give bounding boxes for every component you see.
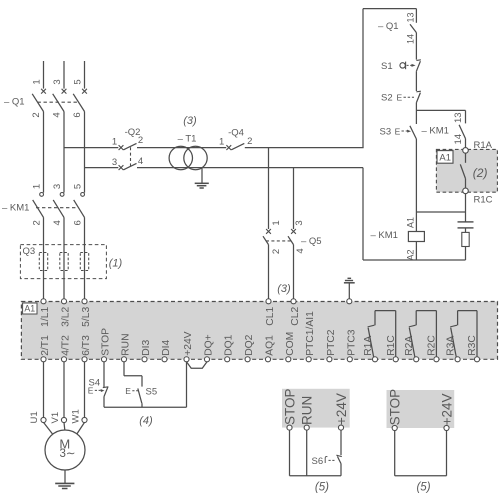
wire RUN down — [306, 430, 308, 476]
svg-text:– Q1: – Q1 — [378, 21, 399, 32]
svg-text:1: 1 — [271, 220, 282, 225]
svg-text:3∼: 3∼ — [59, 448, 75, 460]
snubber resistor — [462, 232, 469, 260]
wire Q4 to control rail corner — [245, 147, 364, 149]
svg-text:S5: S5 — [146, 387, 158, 398]
wire +24V down to S6 — [340, 430, 342, 455]
svg-text:– Q5: – Q5 — [301, 236, 322, 247]
relay contact R2 inside starter — [409, 311, 437, 358]
relay contact R1 inside starter — [368, 311, 396, 358]
control option box (5) with S6 — [282, 389, 350, 428]
wire S4 to bottom wire — [103, 397, 105, 408]
wire RUN jog right — [124, 375, 142, 377]
svg-text:1: 1 — [219, 137, 224, 148]
svg-text:2: 2 — [31, 112, 42, 117]
svg-text:DI3: DI3 — [141, 340, 152, 356]
svg-text:3: 3 — [52, 184, 63, 189]
svg-text:S6: S6 — [312, 456, 324, 467]
svg-text:2: 2 — [247, 136, 252, 147]
relay contact R1A-R1C inside box (2) — [460, 140, 492, 205]
svg-text:+24V: +24V — [183, 331, 194, 355]
wire incoming line L3 — [84, 61, 86, 89]
wire STOP down — [289, 430, 291, 476]
svg-text:+24V: +24V — [439, 393, 454, 425]
wire tap L2 to Q2 pole1 — [64, 147, 118, 149]
wire T1 output to motor terminal U1 — [43, 362, 45, 418]
transformer T1 — [169, 134, 207, 170]
svg-text:1: 1 — [31, 184, 42, 189]
svg-text:3: 3 — [112, 157, 117, 168]
wire incoming line L1 — [43, 61, 45, 89]
motor M 3-phase — [45, 430, 85, 470]
label box A1 — [23, 303, 37, 314]
svg-text:2/T1: 2/T1 — [40, 335, 51, 356]
wire option box bottom rail — [290, 475, 342, 477]
svg-text:3: 3 — [52, 79, 63, 84]
wire U1 to motor — [44, 422, 53, 434]
wire control bottom rail — [363, 259, 466, 261]
svg-text:-Q4: -Q4 — [228, 128, 244, 139]
svg-text:DI4: DI4 — [161, 340, 172, 356]
svg-text:STOP: STOP — [388, 389, 403, 426]
starter bottom terminals — [40, 311, 480, 362]
snubber capacitor — [458, 212, 474, 232]
wire control rail down to coil return — [362, 168, 364, 260]
svg-text:(2): (2) — [473, 166, 488, 180]
starter top terminals — [40, 299, 301, 327]
soft starter relay box (2) — [436, 149, 497, 192]
svg-text:PTC1/AI1: PTC1/AI1 — [305, 311, 316, 356]
svg-text:13: 13 — [453, 112, 464, 123]
fuses Q3 — [39, 253, 88, 271]
svg-text:4: 4 — [52, 220, 63, 225]
svg-text:14: 14 — [406, 34, 416, 44]
earth terminal on starter — [344, 278, 355, 304]
relay contact R3 inside starter — [450, 311, 477, 358]
wire tap L3 to Q2 pole2 — [85, 167, 119, 169]
run switch S6 — [312, 455, 342, 467]
wire down to S5 — [141, 376, 143, 387]
svg-text:S3: S3 — [380, 127, 392, 138]
wire S3 to coil KM1 — [415, 139, 417, 232]
terminals STOP RUN +24V of option box — [282, 388, 349, 430]
svg-text:R1C: R1C — [474, 195, 493, 206]
svg-text:(1): (1) — [109, 258, 123, 270]
svg-text:A1: A1 — [439, 153, 451, 164]
emergency stop S1 — [381, 60, 421, 91]
wire incoming line L2 — [63, 61, 65, 89]
svg-text:PTC2: PTC2 — [326, 329, 337, 356]
contactor KM1 power poles — [2, 184, 85, 226]
wire S5 to bottom wire — [141, 403, 143, 407]
motor terminals U1 V1 W1 — [29, 409, 87, 423]
start button S3 — [380, 126, 417, 139]
svg-text:STOP: STOP — [282, 388, 297, 425]
wire W1 to motor — [77, 422, 85, 434]
svg-text:CL1: CL1 — [265, 307, 276, 326]
wire two wire box bottom rail — [395, 475, 447, 477]
contactor coil KM1 — [371, 217, 425, 261]
svg-text:V1: V1 — [50, 412, 61, 424]
svg-text:PTC3: PTC3 — [346, 329, 357, 356]
circuit breaker Q5 — [263, 220, 322, 254]
wire KM1 poles through fuses to starter — [43, 217, 45, 299]
svg-text:5/L3: 5/L3 — [81, 307, 92, 327]
svg-text:E: E — [88, 386, 94, 396]
svg-text:2: 2 — [138, 135, 143, 146]
wire L1 Q1 to KM1 — [43, 112, 45, 193]
svg-text:– KM1: – KM1 — [422, 126, 449, 137]
svg-text:W1: W1 — [70, 409, 81, 423]
fuse block Q3 dashed box — [20, 245, 106, 279]
svg-text:4: 4 — [52, 112, 63, 117]
svg-text:DQ+: DQ+ — [204, 334, 215, 355]
wire L2 Q1 to KM1 — [63, 112, 65, 193]
circuit breaker Q1 — [4, 79, 85, 117]
svg-text:13: 13 — [405, 12, 415, 22]
wire junction coil branch — [416, 211, 465, 213]
svg-text:+24V: +24V — [334, 393, 349, 425]
svg-text:– Q1: – Q1 — [4, 97, 25, 108]
svg-text:RUN: RUN — [121, 333, 132, 355]
ground at T1 — [195, 168, 209, 188]
wire control rail up — [362, 9, 364, 148]
svg-text:– T1: – T1 — [178, 134, 197, 145]
soft starter block A1 — [21, 302, 497, 360]
svg-text:E: E — [125, 386, 131, 396]
svg-text:4/T2: 4/T2 — [61, 335, 72, 356]
svg-text:S1: S1 — [381, 61, 393, 72]
disconnect switch Q4 — [219, 128, 252, 151]
svg-text:(5): (5) — [315, 482, 329, 494]
svg-text:4: 4 — [295, 248, 306, 253]
wire STOP terminal down — [103, 362, 105, 387]
svg-text:1/L1: 1/L1 — [40, 307, 51, 327]
wire T2 output to motor terminal V1 — [63, 362, 65, 418]
svg-text:AQ1: AQ1 — [265, 335, 276, 356]
disconnect switch Q2 — [112, 127, 143, 170]
svg-text:(3): (3) — [277, 283, 291, 295]
svg-text:(3): (3) — [183, 115, 197, 127]
wire V1 to motor — [63, 422, 66, 430]
run button S5 — [125, 386, 157, 403]
svg-text:A1: A1 — [406, 217, 416, 228]
svg-text:– KM1: – KM1 — [2, 203, 29, 214]
svg-text:2: 2 — [31, 220, 42, 225]
svg-text:STOP: STOP — [101, 328, 112, 356]
wire Q2 under T1 to control rail — [137, 167, 363, 169]
svg-text:– KM1: – KM1 — [371, 230, 398, 241]
svg-text:U1: U1 — [29, 411, 40, 423]
stop button S2 — [381, 91, 421, 124]
svg-text:RUN: RUN — [300, 396, 315, 425]
ground at motor — [55, 470, 74, 489]
svg-text:(4): (4) — [139, 415, 153, 427]
wire +24V down right box — [446, 430, 448, 475]
wire T3 output to motor terminal W1 — [84, 362, 86, 418]
svg-text:(5): (5) — [416, 482, 430, 494]
svg-text:CL2: CL2 — [290, 307, 301, 326]
svg-text:A1: A1 — [24, 304, 35, 314]
wire L3 Q1 to KM1 — [84, 112, 86, 193]
stop button S4 — [88, 378, 109, 397]
svg-text:5: 5 — [73, 79, 84, 84]
wire RUN terminal down — [123, 362, 125, 376]
svg-text:3: 3 — [294, 220, 305, 225]
wire control loop bottom — [104, 406, 187, 408]
svg-text:4: 4 — [138, 156, 143, 167]
wire STOP down right box — [394, 430, 396, 475]
control option box (5) two wire — [387, 390, 455, 428]
svg-text:R1A: R1A — [474, 140, 493, 151]
svg-text:COM: COM — [285, 332, 296, 356]
wire junction to KM1 aux branch — [416, 109, 465, 111]
wire Q2 to T1 top — [137, 147, 226, 149]
svg-text:Q3: Q3 — [23, 246, 36, 257]
jumper +24V to DQ+ — [187, 362, 208, 368]
svg-text:E: E — [397, 93, 403, 103]
svg-text:E: E — [395, 127, 401, 137]
breaker aux contact Q1 13-14 — [378, 9, 416, 60]
svg-text:1: 1 — [112, 137, 117, 148]
wire CL1 drop from line1 — [268, 148, 270, 229]
wire CL2 drop from line2 — [293, 168, 295, 229]
contactor aux contact KM1 13-14 — [422, 110, 466, 148]
svg-text:3/L2: 3/L2 — [61, 307, 72, 327]
svg-text:1: 1 — [32, 79, 43, 84]
svg-text:6/T3: 6/T3 — [81, 335, 92, 356]
svg-text:6: 6 — [72, 220, 83, 225]
svg-text:2: 2 — [271, 249, 282, 254]
svg-text:DQ2: DQ2 — [244, 334, 255, 355]
wire S6 to bottom rail — [340, 464, 342, 476]
svg-text:5: 5 — [72, 184, 83, 189]
wire R1C to coil junction — [465, 193, 467, 212]
wire Q5 pole1 to terminal CL1 — [268, 245, 270, 299]
svg-text:A2: A2 — [406, 249, 416, 260]
svg-text:6: 6 — [72, 112, 83, 117]
terminals STOP +24V of two wire box — [388, 389, 455, 431]
svg-text:DQ1: DQ1 — [224, 334, 235, 355]
svg-text:14: 14 — [453, 134, 464, 145]
wire Q5 pole2 to terminal CL2 — [293, 245, 295, 299]
wire control top rail — [363, 8, 416, 10]
svg-text:S2: S2 — [381, 93, 393, 104]
wire loop up to +24V — [186, 362, 188, 407]
